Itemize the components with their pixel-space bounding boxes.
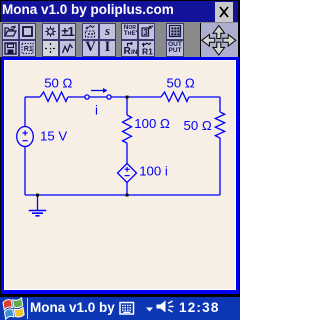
button resistor-tool [59, 40, 76, 57]
voltage source V1 circle [17, 127, 34, 147]
switch terminal circle 2 [107, 95, 111, 99]
button Rin [121, 40, 138, 57]
diamond plus sign [125, 168, 130, 170]
start separator [27, 298, 29, 319]
current arrow head [103, 88, 108, 93]
arrow left [202, 35, 215, 47]
button grid-matrix [166, 23, 184, 40]
node B junction dot [126, 194, 129, 197]
resistor R3 100ohm middle [123, 115, 132, 143]
wire switch to node A [111, 96, 161, 98]
wire left vertical lower [24, 147, 26, 196]
wire R2 to right corner [189, 96, 220, 98]
close button [215, 2, 233, 22]
d-pad panel [200, 23, 238, 58]
source V1 plus sign [23, 130, 130, 175]
wire R3 to diamond [126, 143, 128, 164]
button output [166, 40, 184, 57]
canvas: black gap, blue frame, cream area [0, 57, 240, 294]
button I-solve [99, 40, 116, 57]
svg-text:50 Ω: 50 Ω [184, 118, 212, 133]
wire right vertical lower [219, 138, 221, 195]
wire left vertical upper [24, 97, 26, 127]
taskbar [0, 297, 240, 320]
TASKBAR [0, 297, 240, 320]
dependent source diamond [118, 164, 137, 183]
resistor R2 50ohm top-right [161, 92, 189, 102]
start flag logo [3, 298, 25, 320]
arrow down [213, 42, 225, 55]
button 3-port [138, 23, 155, 40]
wire between switch terminals [89, 96, 107, 98]
button source-sun [42, 23, 59, 40]
ground bars [29, 211, 47, 216]
dropdown triangle [146, 308, 153, 312]
title bar [1, 1, 238, 22]
wire bottom [25, 194, 220, 196]
ground junction dot [36, 194, 39, 197]
button save [2, 40, 19, 57]
toolbar background [0, 22, 238, 57]
button R1-sweep [138, 40, 155, 57]
svg-text:15 V: 15 V [40, 128, 67, 143]
speaker icon [157, 301, 166, 313]
keyboard icon [120, 303, 134, 315]
wire top-left [25, 96, 40, 98]
svg-text:50 Ω: 50 Ω [167, 76, 195, 91]
wire middle vertical upper [126, 97, 128, 115]
button probe (pressed) [42, 40, 59, 57]
svg-text:50 Ω: 50 Ω [44, 76, 72, 91]
wire diamond to bottom [126, 183, 128, 196]
wire right vertical upper [219, 97, 221, 112]
switch terminal circle 1 [85, 95, 89, 99]
button s-domain [99, 23, 116, 40]
button plusminus1 [59, 23, 76, 40]
svg-text:100 i: 100 i [139, 164, 168, 179]
ground stub [37, 195, 39, 210]
arrow right [223, 35, 236, 47]
current arrow i [91, 90, 104, 92]
arrow up [213, 26, 225, 39]
diamond minus sign [125, 175, 130, 177]
svg-text:i: i [95, 103, 98, 118]
button norton-thevenin [121, 23, 138, 40]
resistor R4 50ohm right [215, 112, 224, 138]
button V-solve [82, 40, 99, 57]
wire R1 to switch [68, 96, 85, 98]
button open-file [2, 23, 19, 40]
button new-box [19, 23, 36, 40]
resistor R1 50ohm top-left [40, 92, 68, 102]
node A junction dot [126, 96, 129, 99]
button stimulus [82, 23, 99, 40]
source V1 minus sign [23, 140, 28, 142]
button R1-select [19, 40, 36, 57]
svg-text:100 Ω: 100 Ω [134, 116, 170, 131]
